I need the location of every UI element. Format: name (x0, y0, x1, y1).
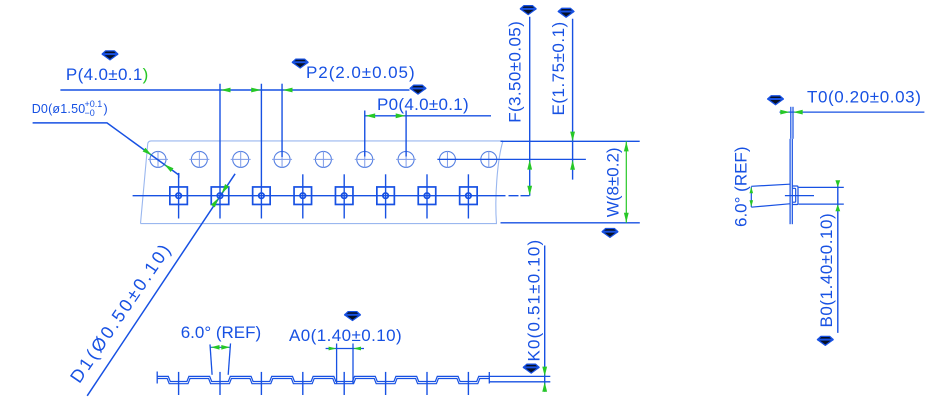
side view pocket 1 centerline (178, 372, 180, 395)
gem marker E (558, 8, 574, 17)
sprocket hole 7 crosshair (396, 151, 416, 168)
arrow K0 down (542, 367, 547, 377)
gem marker T0 (768, 96, 784, 105)
sprocket hole 9 crosshair (479, 151, 499, 168)
sprocket hole 6 crosshair (355, 151, 375, 168)
svg-text:6.0° (REF): 6.0° (REF) (732, 147, 751, 227)
strip right end tick (488, 372, 490, 384)
svg-text:): ) (104, 102, 108, 116)
dimension K0 extension line top (489, 375, 550, 377)
arrow D1 lower (211, 198, 219, 207)
pocket 7 center hole D1 (424, 193, 429, 198)
dimension A0 extension lines (336, 344, 338, 385)
pocket 4 vertical centerline (302, 174, 304, 218)
dimension W line (625, 141, 627, 222)
dimension T0 dimension line (780, 111, 925, 113)
component pockets (squares) (170, 187, 477, 205)
gem marker W (602, 229, 618, 238)
W extension line bottom (501, 222, 640, 224)
tape outline (top view carrier tape body) (141, 141, 504, 224)
W extension line top (501, 140, 640, 142)
arrow T0 right (793, 110, 803, 115)
svg-text:D1(Ø0.50±0.10): D1(Ø0.50±0.10) (66, 239, 176, 387)
pocket 2 (211, 187, 229, 205)
strip left end tick (156, 372, 158, 384)
sprocket hole 6 (357, 151, 373, 167)
arrow P0 right (396, 113, 406, 118)
pocket vertical centerlines (179, 174, 469, 218)
svg-text:K0(0.51±0.10): K0(0.51±0.10) (525, 239, 544, 362)
dimension F line (529, 17, 531, 196)
dimension B0 extension line bottom (799, 203, 844, 205)
gem marker K0 (523, 364, 539, 373)
pocket 5 (335, 187, 353, 205)
pocket 1 center hole D1 (176, 193, 181, 198)
arrow E up (570, 160, 575, 170)
sprocket hole 2 crosshair (189, 151, 209, 168)
side view strip upper surface (157, 376, 489, 381)
dimension P / P2 shared dimension line (60, 89, 409, 91)
pocket center holes D1 (176, 193, 471, 198)
gem marker F (520, 6, 536, 15)
arrow F up (527, 160, 532, 170)
dimension B0 line (837, 181, 839, 333)
gem marker P2 (292, 59, 308, 68)
dimension B0 extension line top (799, 186, 844, 188)
svg-text:−0: −0 (85, 108, 95, 118)
side view pocket 3 centerline (260, 372, 262, 395)
arrow W down (624, 213, 629, 223)
arrow P left (221, 88, 231, 93)
pocket 6 vertical centerline (385, 174, 387, 218)
arrow P2 right (283, 88, 293, 93)
arrow E down (570, 132, 575, 142)
gem marker A0 (345, 312, 361, 321)
D0 leader end tick (178, 173, 180, 178)
pocket 1 vertical centerline (178, 174, 180, 218)
dimension D1 leader (87, 174, 235, 396)
pocket 6 center hole D1 (383, 193, 388, 198)
sprocket hole 1 crosshair (148, 151, 168, 168)
gem marker P (102, 51, 118, 60)
6.0 REF right upper line (751, 184, 789, 186)
dimension K0 line (544, 246, 546, 392)
svg-text:W(8±0.2): W(8±0.2) (604, 147, 623, 217)
6.0 REF right connector line (750, 187, 752, 207)
pocket 8 vertical centerline (467, 174, 469, 218)
extension line pocket2 (219, 84, 221, 219)
sprocket hole crosshairs (148, 151, 499, 168)
extension line pocket3 (260, 84, 262, 219)
extension line hole4 (281, 84, 283, 157)
svg-text:E(1.75±0.1): E(1.75±0.1) (549, 21, 568, 115)
pocket centerline (horizontal through pockets) (133, 195, 530, 197)
arrow F down (527, 186, 532, 196)
pocket 7 (418, 187, 436, 205)
svg-text:6.0° (REF): 6.0° (REF) (181, 323, 261, 342)
svg-text:P0(4.0±0.1): P0(4.0±0.1) (377, 95, 469, 114)
sprocket hole 2 (191, 151, 207, 167)
side view strip lower surface (157, 379, 489, 384)
svg-text:B0(1.40±0.10): B0(1.40±0.10) (817, 213, 836, 328)
side view pocket 6 centerline (385, 372, 387, 395)
arrow B0 up (835, 204, 840, 211)
dimension 6.0 REF (side view) extension lines (210, 344, 212, 374)
sprocket hole 7 (398, 151, 414, 167)
sprocket hole 5 crosshair (313, 151, 333, 168)
pocket 5 center hole D1 (342, 193, 347, 198)
dimension 6.0 REF dimension line (211, 346, 231, 348)
6.0 REF right lower line (751, 204, 789, 207)
cross-section pocket bump outer (793, 186, 798, 205)
arrow 6.0 left (211, 345, 220, 350)
sprocket hole 8 (439, 151, 455, 167)
pocket 1 (170, 187, 188, 205)
svg-text:P(4.0±0.1): P(4.0±0.1) (66, 65, 149, 84)
side view pocket 8 centerline (467, 372, 469, 395)
pocket 4 center hole D1 (300, 193, 305, 198)
svg-text:D0(ø1.50: D0(ø1.50 (32, 102, 86, 116)
sprocket hole 8 crosshair (437, 151, 457, 168)
arrow A0 right (353, 347, 361, 351)
pocket 8 center hole D1 (466, 193, 471, 198)
cross-section tape inner line lower (791, 139, 793, 224)
svg-text:F(3.50±0.05): F(3.50±0.05) (506, 21, 525, 123)
arrow K0 up (542, 382, 547, 392)
arrow A0 left (329, 347, 337, 351)
sprocket hole 1 (150, 151, 166, 167)
pocket 5 vertical centerline (343, 174, 345, 218)
sprocket hole 3 (233, 151, 249, 167)
cross-section tape inner line upper (792, 107, 794, 139)
arrow D0 lower (164, 164, 173, 172)
arrow B0 down (835, 180, 840, 187)
dimension P0 dimension line (365, 115, 491, 117)
arrow 6.0 right (221, 345, 230, 350)
sprocket hole 9 (481, 151, 497, 167)
arrow 6.0 right up (750, 187, 754, 194)
extension line hole7 (405, 111, 407, 157)
gem marker B0 (817, 336, 833, 345)
cross-section tape outer line lower (789, 139, 791, 224)
cross-section tape outer line upper (790, 107, 792, 139)
sprocket hole circles row (150, 151, 497, 167)
side view pocket 2 centerline (219, 372, 221, 395)
sprocket hole 4 crosshair (272, 151, 292, 168)
side view pocket 5 centerline (343, 372, 345, 395)
pocket 8 (460, 187, 478, 205)
sprocket hole 5 (315, 151, 331, 167)
arrow W up (624, 142, 629, 152)
svg-text:T0(0.20±0.03): T0(0.20±0.03) (807, 88, 921, 107)
sprocket hole 4 (274, 151, 290, 167)
side view pocket centerlines (179, 372, 469, 395)
pocket 3 (253, 187, 271, 205)
sprocket hole centerline extension to E dimension (437, 158, 586, 160)
cross-section pocket bump inner (793, 188, 796, 202)
arrow D0 upper (143, 148, 152, 156)
arrow P0 left (365, 113, 375, 118)
dimension D0 leader (33, 123, 179, 175)
dimension E line (572, 19, 574, 180)
arrow 6.0 right down (750, 200, 754, 207)
cross-section pocket centerline (785, 195, 814, 197)
dimension A0 dimension line (326, 348, 364, 350)
side view pocket 4 centerline (302, 372, 304, 395)
side view pocket 7 centerline (426, 372, 428, 395)
svg-text:P2(2.0±0.05): P2(2.0±0.05) (306, 63, 416, 82)
pocket 2 center hole D1 (217, 193, 222, 198)
sprocket hole 3 crosshair (231, 151, 251, 168)
pocket 6 (377, 187, 395, 205)
pocket 3 center hole D1 (259, 193, 264, 198)
arrow D1 upper (222, 184, 230, 193)
arrow T0 left (780, 110, 790, 115)
arrow P right (251, 88, 261, 93)
pocket 4 (294, 187, 312, 205)
dimension K0 extension line bottom (489, 381, 550, 383)
extension line hole6 (364, 111, 366, 157)
svg-text:A0(1.40±0.10): A0(1.40±0.10) (289, 326, 402, 345)
gem marker P0 (410, 85, 426, 94)
pocket 7 vertical centerline (426, 174, 428, 218)
